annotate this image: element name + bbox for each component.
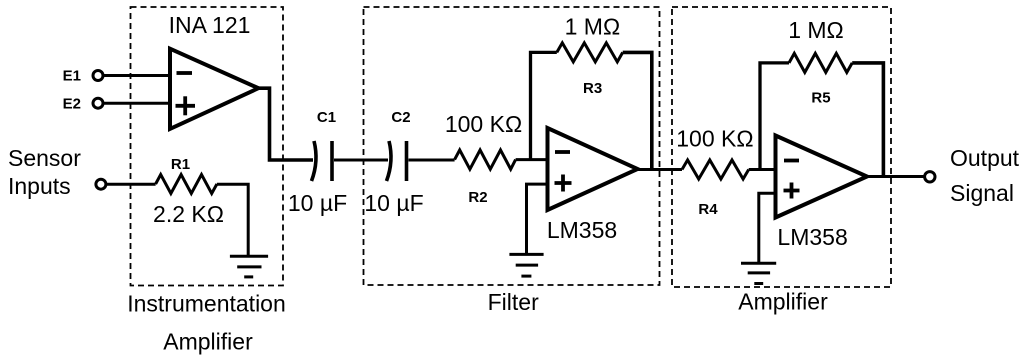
svg-text:Filter: Filter	[488, 289, 539, 315]
svg-text:LM358: LM358	[547, 217, 617, 243]
op-amp U3 LM358 (amplifier)	[776, 136, 868, 218]
box Amplifier	[672, 7, 891, 287]
pin minus U1	[177, 71, 193, 75]
svg-text:Sensor: Sensor	[8, 145, 81, 171]
svg-text:10 µF: 10 µF	[288, 190, 347, 216]
svg-text:100 KΩ: 100 KΩ	[676, 126, 753, 152]
wire R2 to U2 minus	[516, 158, 549, 161]
resistor R1	[156, 175, 217, 194]
wire R5 down to U3 output	[852, 63, 883, 177]
wire E2 to op-amp	[103, 102, 171, 105]
svg-text:Signal: Signal	[950, 180, 1014, 206]
terminal E1	[93, 71, 103, 81]
svg-text:R2: R2	[468, 189, 487, 206]
terminal output	[925, 172, 935, 182]
ground G1	[230, 256, 268, 277]
svg-text:R3: R3	[583, 80, 602, 97]
svg-text:10 µF: 10 µF	[364, 190, 423, 216]
svg-text:R5: R5	[811, 90, 830, 107]
wire U3 output to terminal	[864, 175, 925, 178]
wire R1 to ground	[217, 184, 248, 256]
wire E1 to op-amp	[103, 74, 171, 77]
resistor R5	[789, 53, 852, 72]
wire C2 to R2	[409, 159, 455, 162]
svg-text:C2: C2	[391, 109, 410, 126]
svg-text:100 KΩ: 100 KΩ	[445, 111, 522, 137]
svg-text:LM358: LM358	[777, 224, 847, 250]
box Filter	[364, 7, 660, 285]
ground G2	[509, 254, 543, 276]
resistor R4	[682, 160, 749, 179]
wire feedback tap up to R3	[531, 52, 557, 159]
svg-text:E2: E2	[63, 96, 81, 113]
terminal sensor input	[96, 179, 106, 189]
wire U2 output to R4	[635, 168, 682, 171]
svg-text:Output: Output	[950, 145, 1020, 171]
svg-text:Instrumentation: Instrumentation	[127, 291, 286, 317]
pin plus U2	[555, 175, 572, 192]
wire C1 to C2	[334, 159, 388, 162]
svg-text:1 MΩ: 1 MΩ	[565, 14, 621, 40]
svg-text:2.2 KΩ: 2.2 KΩ	[153, 201, 224, 227]
wire U2 plus to ground	[527, 184, 550, 254]
svg-text:R1: R1	[171, 156, 190, 173]
svg-text:Amplifier: Amplifier	[163, 329, 253, 355]
capacitor C1	[312, 141, 333, 181]
pin minus U2	[555, 150, 570, 154]
svg-text:Inputs: Inputs	[8, 173, 71, 199]
svg-text:R4: R4	[698, 201, 718, 218]
pin plus U1	[176, 96, 196, 115]
svg-text:INA 121: INA 121	[169, 12, 251, 38]
wire U3 plus to ground	[759, 193, 777, 263]
svg-text:1 MΩ: 1 MΩ	[788, 17, 844, 43]
wire U1 output to C1	[256, 88, 313, 160]
wire sensor input to R1	[106, 183, 156, 186]
wire feedback tap up to R5	[760, 63, 789, 170]
resistor R3	[557, 43, 623, 62]
box Instrumentation Amplifier	[131, 7, 284, 286]
svg-text:E1: E1	[63, 68, 81, 85]
op-amp U1 INA 121	[170, 49, 258, 129]
label Sensor Inputs	[8, 145, 81, 199]
pin minus U3	[784, 159, 799, 163]
wire R3 down to U2 output	[623, 52, 652, 169]
resistor R2	[455, 150, 516, 169]
capacitor C2	[387, 141, 407, 181]
svg-text:C1: C1	[317, 109, 336, 126]
pin plus U3	[784, 183, 800, 199]
svg-text:Amplifier: Amplifier	[738, 289, 828, 315]
wire R4 to U3 minus	[749, 168, 777, 171]
op-amp U2 LM358 (filter)	[548, 128, 638, 210]
terminal E2	[93, 98, 103, 108]
label Output Signal	[950, 145, 1020, 206]
ground G3	[741, 263, 776, 283]
